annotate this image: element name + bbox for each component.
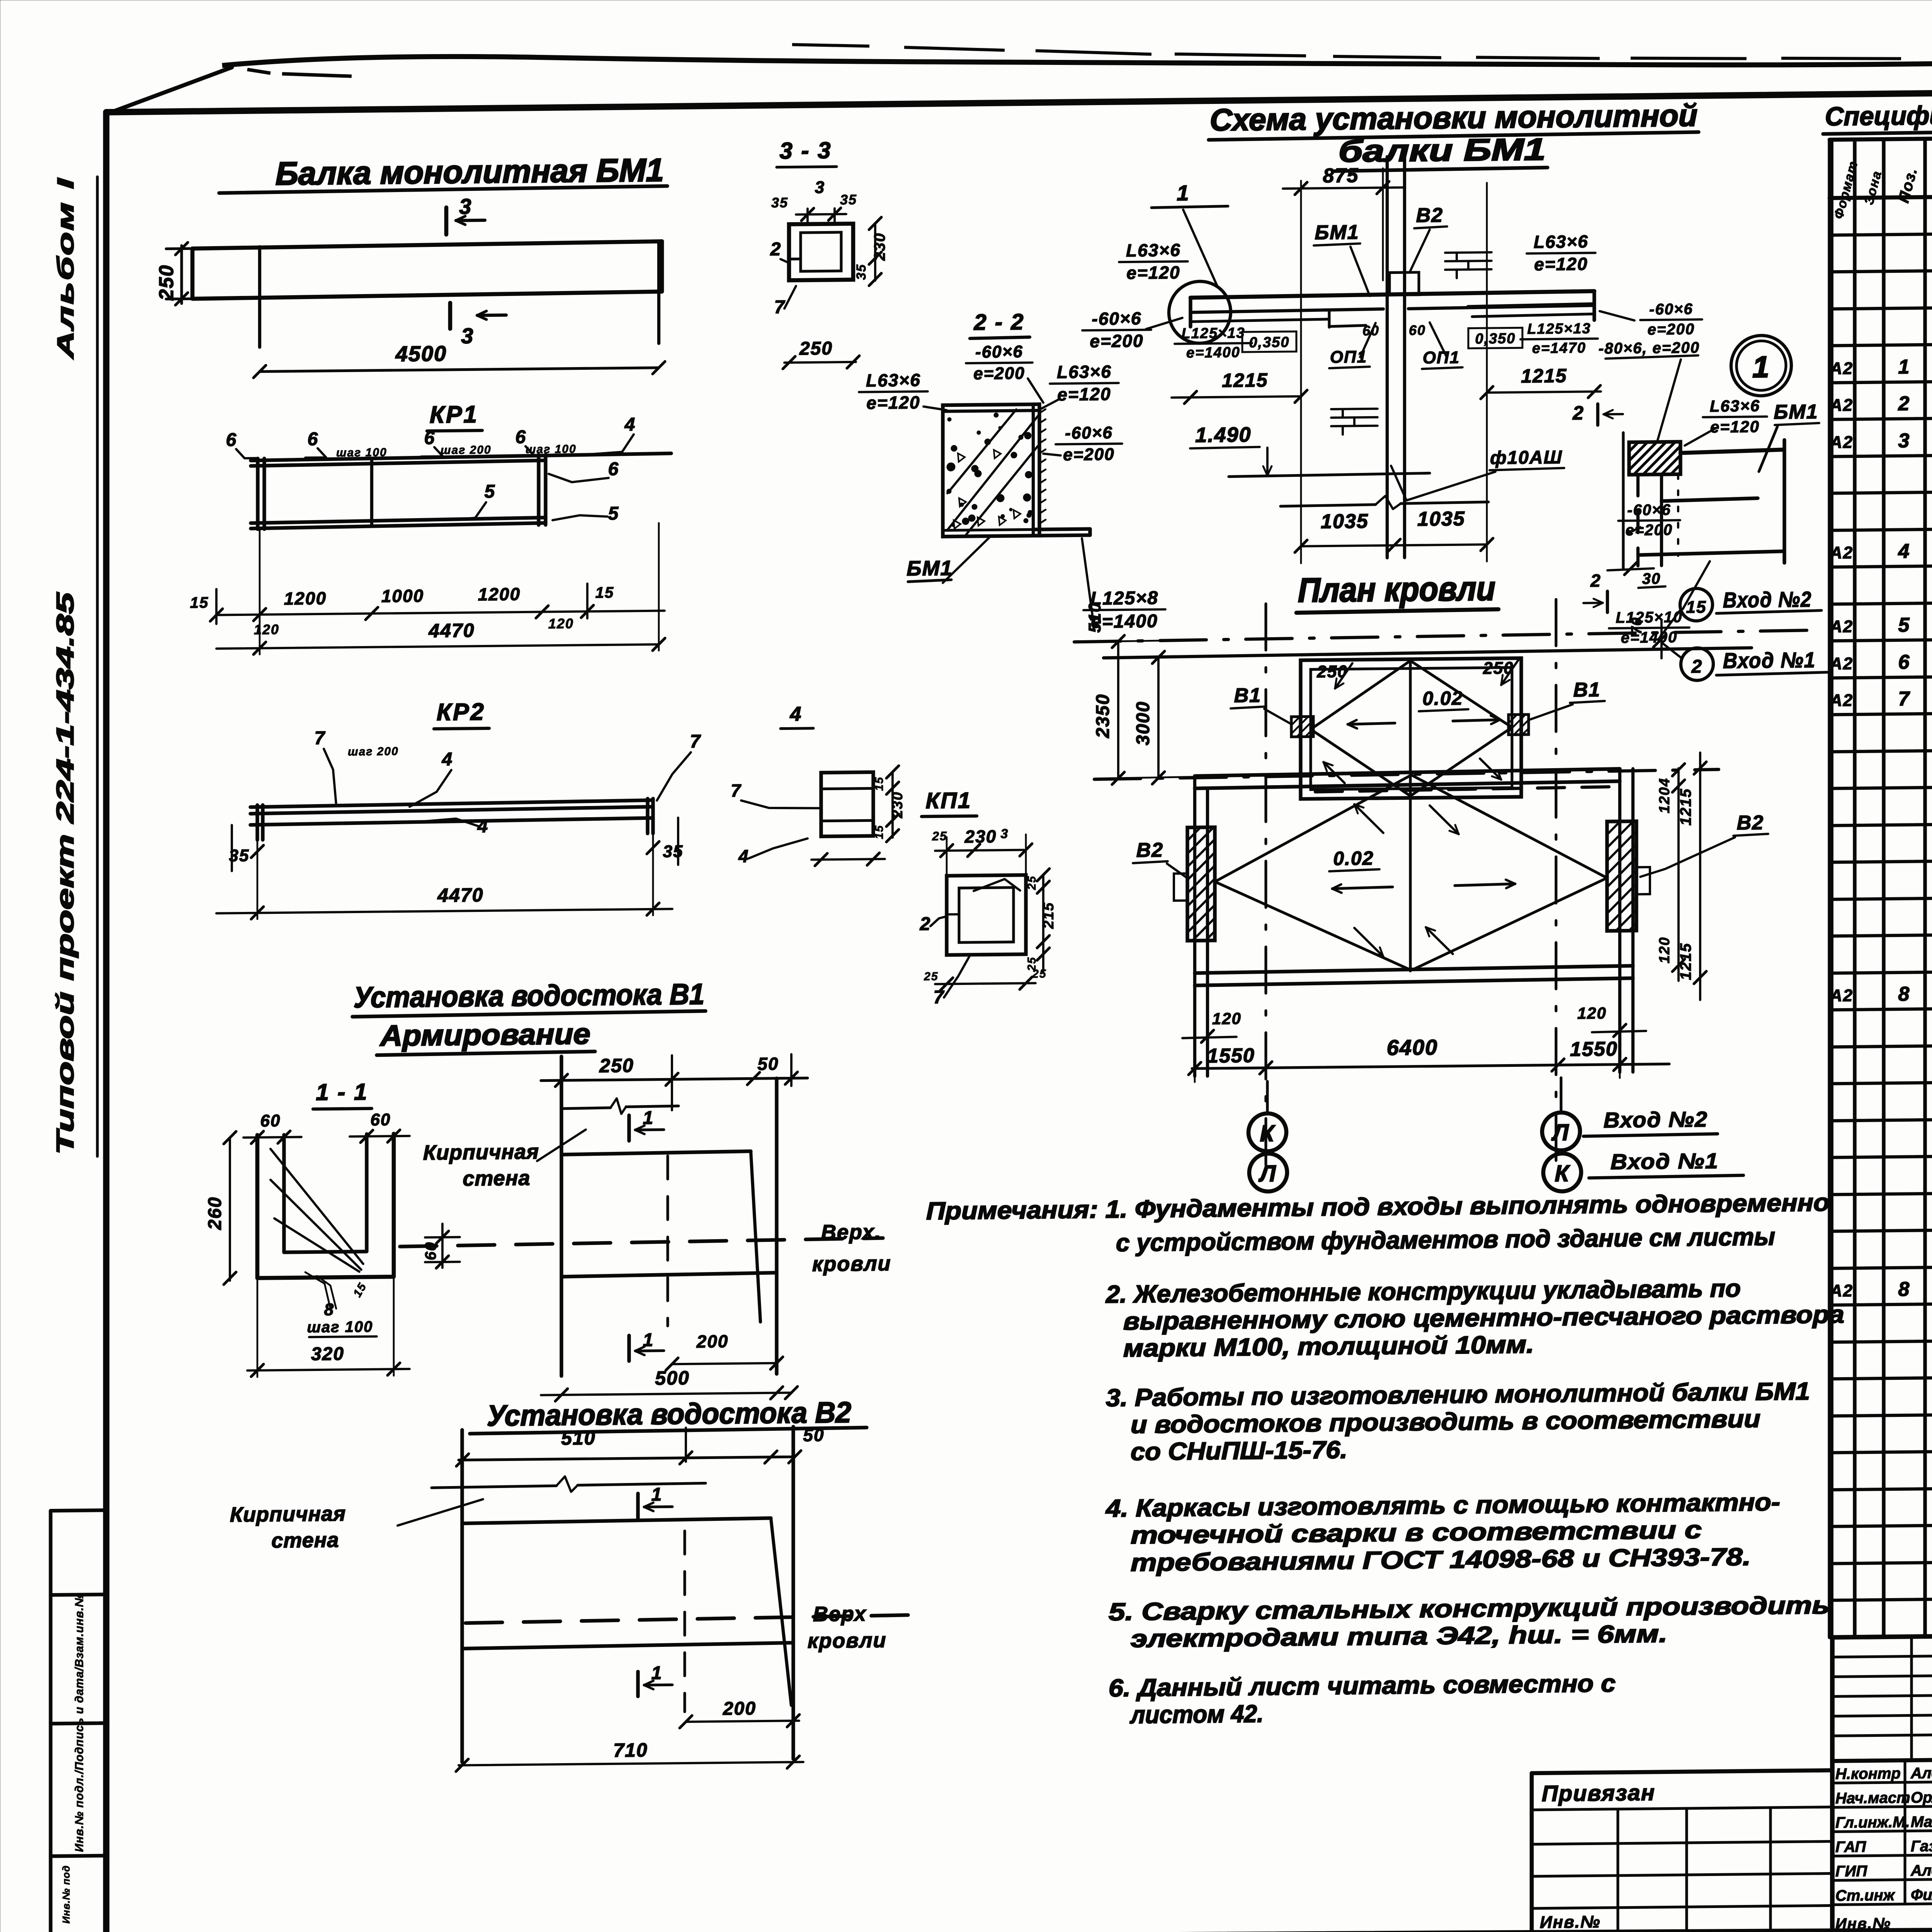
svg-text:1215: 1215 <box>1222 369 1268 391</box>
svg-text:В2: В2 <box>1136 839 1163 862</box>
svg-text:Вход №1: Вход №1 <box>1723 648 1816 673</box>
svg-text:е=120: е=120 <box>1126 262 1180 283</box>
svg-text:А2: А2 <box>1830 1281 1853 1301</box>
svg-text:шаг 100: шаг 100 <box>526 443 577 456</box>
svg-text:1: 1 <box>643 1330 654 1350</box>
svg-text:План кровли: План кровли <box>1298 569 1495 609</box>
svg-text:7: 7 <box>315 728 326 748</box>
svg-text:1550: 1550 <box>1207 1044 1255 1067</box>
svg-text:кровли: кровли <box>812 1252 891 1276</box>
svg-text:0,350: 0,350 <box>1475 330 1515 347</box>
svg-text:L63×6: L63×6 <box>1710 396 1760 415</box>
svg-text:КП1: КП1 <box>926 788 972 813</box>
svg-text:Инв.№ подл./Подпись и дата/Вза: Инв.№ подл./Подпись и дата/Взам.инв.№ <box>73 1594 86 1852</box>
svg-text:А2: А2 <box>1830 986 1853 1005</box>
svg-text:1035: 1035 <box>1417 508 1465 531</box>
svg-text:1200: 1200 <box>284 588 327 609</box>
svg-text:L125×8: L125×8 <box>1090 588 1158 609</box>
svg-text:шаг 200: шаг 200 <box>440 444 492 457</box>
svg-text:1.490: 1.490 <box>1195 423 1251 447</box>
svg-text:35: 35 <box>771 194 788 210</box>
svg-text:L125×13: L125×13 <box>1181 325 1245 342</box>
svg-text:балки БМ1: балки БМ1 <box>1338 132 1546 168</box>
svg-text:листом 42.: листом 42. <box>1129 1700 1264 1729</box>
svg-text:А2: А2 <box>1830 654 1853 673</box>
svg-text:е=200: е=200 <box>1063 445 1115 464</box>
svg-text:3000: 3000 <box>1133 701 1153 745</box>
svg-text:120: 120 <box>1577 1004 1607 1022</box>
svg-text:1: 1 <box>651 1485 663 1505</box>
svg-text:1: 1 <box>1752 350 1770 384</box>
svg-text:2: 2 <box>1691 656 1703 677</box>
svg-text:320: 320 <box>311 1344 344 1364</box>
svg-text:Инв.№: Инв.№ <box>1835 1915 1891 1932</box>
svg-text:Алексеенко: Алексеенко <box>1910 1764 1932 1782</box>
svg-text:2350: 2350 <box>1093 694 1113 738</box>
svg-text:6: 6 <box>308 429 319 449</box>
svg-text:Алексеенко: Алексеенко <box>1910 1861 1932 1879</box>
svg-text:1000: 1000 <box>381 585 424 606</box>
svg-text:25: 25 <box>1026 876 1038 891</box>
svg-text:6: 6 <box>1898 651 1910 673</box>
svg-text:ф10АШ: ф10АШ <box>1490 447 1563 468</box>
svg-text:2: 2 <box>1572 402 1584 424</box>
svg-text:8: 8 <box>1898 983 1910 1005</box>
svg-text:0.02: 0.02 <box>1422 687 1463 709</box>
svg-text:ОП1: ОП1 <box>1423 348 1460 367</box>
svg-text:е=120: е=120 <box>866 392 920 413</box>
svg-text:Н.контр: Н.контр <box>1835 1765 1901 1783</box>
svg-text:7: 7 <box>774 297 786 317</box>
svg-text:3: 3 <box>461 323 474 348</box>
svg-text:А2: А2 <box>1830 359 1853 378</box>
svg-text:3: 3 <box>815 178 825 197</box>
svg-text:15: 15 <box>873 825 886 839</box>
svg-text:120: 120 <box>548 616 574 632</box>
svg-text:А2: А2 <box>1830 543 1853 563</box>
svg-text:Нач.маст: Нач.маст <box>1835 1789 1910 1807</box>
svg-text:35: 35 <box>854 264 869 280</box>
svg-text:КР1: КР1 <box>430 401 478 428</box>
svg-text:В2: В2 <box>1416 204 1443 227</box>
svg-text:500: 500 <box>655 1367 689 1389</box>
svg-text:Кирпичная: Кирпичная <box>423 1140 539 1165</box>
svg-text:2: 2 <box>1898 393 1910 415</box>
svg-text:50: 50 <box>803 1425 824 1446</box>
svg-text:ГАП: ГАП <box>1835 1838 1866 1856</box>
svg-text:60: 60 <box>1409 322 1426 338</box>
svg-text:А2: А2 <box>1830 433 1853 452</box>
svg-text:230: 230 <box>964 826 997 847</box>
svg-text:1215: 1215 <box>1677 942 1694 980</box>
svg-text:4: 4 <box>624 414 636 435</box>
svg-text:Схема установки монолитной: Схема установки монолитной <box>1210 98 1697 137</box>
svg-text:5: 5 <box>485 481 496 502</box>
svg-text:4: 4 <box>442 749 453 770</box>
svg-text:1550: 1550 <box>1570 1038 1618 1061</box>
svg-text:120: 120 <box>1656 937 1673 964</box>
svg-text:60: 60 <box>422 1242 439 1260</box>
svg-text:БМ1: БМ1 <box>1315 221 1359 244</box>
svg-text:-60×6: -60×6 <box>1649 301 1693 318</box>
svg-text:Верх: Верх <box>813 1602 867 1626</box>
svg-text:Установка водостока В1: Установка водостока В1 <box>354 978 704 1014</box>
svg-text:215: 215 <box>1041 902 1057 929</box>
svg-text:-60×6: -60×6 <box>1065 423 1113 442</box>
svg-text:-80×6, е=200: -80×6, е=200 <box>1599 339 1700 357</box>
svg-text:Вход №2: Вход №2 <box>1604 1107 1708 1133</box>
svg-text:е=200: е=200 <box>1090 331 1143 351</box>
svg-text:е=1470: е=1470 <box>1532 340 1586 357</box>
svg-text:Вход №1: Вход №1 <box>1611 1148 1719 1174</box>
svg-text:5: 5 <box>608 503 619 524</box>
svg-text:6: 6 <box>515 427 527 447</box>
svg-text:Л: Л <box>1551 1119 1569 1145</box>
svg-text:30: 30 <box>1642 570 1661 587</box>
svg-text:марки М100, толщиной 10мм.: марки М100, толщиной 10мм. <box>1123 1330 1534 1362</box>
svg-text:3: 3 <box>1001 827 1009 841</box>
svg-text:шаг 200: шаг 200 <box>348 745 399 758</box>
svg-text:Армирование: Армирование <box>379 1017 590 1052</box>
svg-text:А2: А2 <box>1830 691 1853 710</box>
svg-text:Альбом I: Альбом I <box>53 177 78 360</box>
svg-text:1: 1 <box>643 1108 654 1128</box>
svg-text:требованиями ГОСТ 14098-68 и: требованиями ГОСТ 14098-68 и СН393-78. <box>1131 1543 1751 1577</box>
svg-text:15: 15 <box>190 594 209 611</box>
svg-text:250: 250 <box>799 338 833 359</box>
svg-text:200: 200 <box>696 1331 729 1352</box>
svg-text:230: 230 <box>871 233 888 261</box>
svg-text:БМ1: БМ1 <box>1774 401 1818 423</box>
svg-text:К: К <box>1260 1120 1276 1146</box>
svg-text:КР2: КР2 <box>437 699 485 726</box>
svg-text:стена: стена <box>271 1529 339 1553</box>
svg-text:4470: 4470 <box>428 619 474 641</box>
svg-text:В2: В2 <box>1737 811 1764 834</box>
svg-text:25: 25 <box>923 970 938 983</box>
svg-text:кровли: кровли <box>808 1629 887 1653</box>
svg-text:710: 710 <box>613 1739 648 1761</box>
svg-text:Л: Л <box>1258 1160 1276 1186</box>
svg-text:1215: 1215 <box>1677 788 1694 825</box>
svg-text:А2: А2 <box>1830 617 1853 636</box>
svg-text:6400: 6400 <box>1387 1035 1438 1060</box>
svg-text:В1: В1 <box>1234 684 1261 707</box>
svg-text:1215: 1215 <box>1521 365 1567 387</box>
svg-text:L63×6: L63×6 <box>1534 231 1588 252</box>
svg-text:1035: 1035 <box>1321 510 1369 533</box>
svg-text:В1: В1 <box>1573 679 1600 701</box>
svg-text:70: 70 <box>1629 617 1645 635</box>
svg-text:6: 6 <box>608 459 619 480</box>
svg-text:2: 2 <box>920 914 931 934</box>
svg-text:Газеров: Газеров <box>1911 1837 1932 1855</box>
svg-text:БМ1: БМ1 <box>906 556 952 580</box>
svg-text:6: 6 <box>424 428 435 448</box>
svg-text:со СНиПШ-15-76.: со СНиПШ-15-76. <box>1131 1436 1347 1466</box>
svg-text:L125×13: L125×13 <box>1527 320 1591 337</box>
svg-text:К: К <box>1555 1160 1571 1186</box>
svg-text:Вход №2: Вход №2 <box>1723 587 1812 612</box>
svg-text:е=1400: е=1400 <box>1186 344 1240 361</box>
svg-text:Ст.инж: Ст.инж <box>1835 1887 1896 1904</box>
svg-text:электродами типа Э42, hш. =: электродами типа Э42, hш. = 6мм. <box>1131 1620 1667 1653</box>
svg-text:1204: 1204 <box>1656 777 1673 813</box>
svg-text:25: 25 <box>1032 968 1046 980</box>
svg-text:60: 60 <box>1362 323 1379 338</box>
svg-text:230: 230 <box>889 791 906 819</box>
svg-text:Маргулец: Маргулец <box>1911 1813 1932 1831</box>
svg-text:А2: А2 <box>1830 396 1853 415</box>
svg-text:4470: 4470 <box>437 884 483 906</box>
svg-text:Филиппова: Филиппова <box>1911 1886 1932 1903</box>
svg-text:250: 250 <box>599 1054 634 1077</box>
svg-text:1200: 1200 <box>478 584 520 604</box>
svg-text:15: 15 <box>595 584 614 601</box>
svg-text:15: 15 <box>1686 598 1707 617</box>
svg-text:Привязан: Привязан <box>1542 1780 1655 1806</box>
svg-text:7: 7 <box>1898 688 1910 710</box>
svg-text:ОП1: ОП1 <box>1330 347 1367 367</box>
svg-text:8: 8 <box>1898 1278 1910 1301</box>
svg-text:3: 3 <box>459 194 472 218</box>
svg-text:35: 35 <box>663 842 684 861</box>
svg-text:7: 7 <box>731 781 742 801</box>
svg-text:875: 875 <box>1323 164 1359 187</box>
svg-text:15: 15 <box>873 776 886 791</box>
svg-text:50: 50 <box>757 1054 779 1074</box>
svg-text:1: 1 <box>651 1663 663 1684</box>
svg-text:L63×6: L63×6 <box>1057 361 1112 382</box>
svg-text:0.02: 0.02 <box>1333 847 1374 869</box>
svg-text:4: 4 <box>1898 540 1910 563</box>
svg-text:4: 4 <box>790 703 802 725</box>
svg-text:6. Данный лист читать совме: 6. Данный лист читать совместно с <box>1109 1669 1616 1702</box>
svg-text:1: 1 <box>1898 356 1910 378</box>
svg-text:-60×6: -60×6 <box>975 342 1023 362</box>
svg-text:е=120: е=120 <box>1057 384 1111 404</box>
svg-text:е=200: е=200 <box>973 364 1025 383</box>
svg-text:е=120: е=120 <box>1710 417 1760 436</box>
svg-text:е=120: е=120 <box>1534 254 1588 274</box>
svg-text:-60×6: -60×6 <box>1092 308 1142 329</box>
svg-text:260: 260 <box>205 1196 225 1230</box>
svg-text:3: 3 <box>1898 430 1910 452</box>
svg-text:0,350: 0,350 <box>1249 334 1289 351</box>
svg-text:L63×6: L63×6 <box>866 370 921 390</box>
svg-text:60: 60 <box>260 1111 281 1131</box>
svg-text:L63×6: L63×6 <box>1126 240 1181 260</box>
svg-text:510: 510 <box>561 1427 595 1449</box>
svg-text:стена: стена <box>463 1167 530 1190</box>
svg-text:2 - 2: 2 - 2 <box>973 310 1024 335</box>
svg-text:35: 35 <box>840 192 857 207</box>
svg-text:L125×10: L125×10 <box>1616 609 1682 626</box>
svg-text:Типовой проект 224-1-434.85: Типовой проект 224-1-434.85 <box>52 592 79 1155</box>
svg-text:4500: 4500 <box>395 341 447 366</box>
svg-text:120: 120 <box>254 621 279 638</box>
svg-text:2: 2 <box>1590 570 1601 590</box>
svg-text:шаг 100: шаг 100 <box>336 446 387 459</box>
svg-text:Верх.: Верх. <box>821 1220 881 1244</box>
svg-text:Инв.№ под: Инв.№ под <box>60 1865 72 1923</box>
svg-text:2: 2 <box>770 239 782 260</box>
svg-text:ГИП: ГИП <box>1835 1863 1867 1880</box>
svg-text:60: 60 <box>371 1110 391 1129</box>
svg-text:е=200: е=200 <box>1648 321 1695 338</box>
svg-text:1 - 1: 1 - 1 <box>316 1079 368 1105</box>
svg-text:250: 250 <box>155 264 178 301</box>
svg-text:6: 6 <box>226 430 237 450</box>
svg-text:25: 25 <box>932 829 947 843</box>
svg-text:120: 120 <box>1212 1009 1242 1028</box>
svg-text:4: 4 <box>738 846 749 866</box>
svg-text:Инв.№: Инв.№ <box>1540 1912 1600 1932</box>
svg-text:7: 7 <box>690 731 701 752</box>
svg-text:1: 1 <box>1177 180 1189 205</box>
svg-text:5: 5 <box>1898 614 1910 636</box>
svg-text:Кирпичная: Кирпичная <box>230 1502 346 1526</box>
svg-text:е=1400: е=1400 <box>1091 611 1158 632</box>
svg-text:Орлов: Орлов <box>1911 1789 1932 1806</box>
svg-text:шаг 100: шаг 100 <box>307 1318 373 1336</box>
svg-text:200: 200 <box>723 1698 756 1719</box>
svg-text:3 - 3: 3 - 3 <box>779 137 832 163</box>
svg-text:Гл.инж.М.: Гл.инж.М. <box>1835 1814 1910 1832</box>
svg-text:-60×6: -60×6 <box>1627 501 1671 519</box>
